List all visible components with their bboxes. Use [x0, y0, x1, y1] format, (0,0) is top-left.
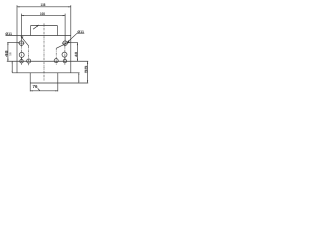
- svg-text:48: 48: [4, 49, 9, 57]
- svg-text:16: 16: [8, 52, 12, 56]
- svg-text:76: 76: [33, 84, 39, 89]
- svg-text:Ø11: Ø11: [5, 32, 12, 36]
- svg-text:55: 55: [83, 64, 88, 73]
- svg-text:48: 48: [73, 51, 78, 57]
- svg-text:138: 138: [41, 3, 46, 7]
- svg-text:Ø11: Ø11: [77, 30, 84, 34]
- svg-text:108: 108: [40, 12, 45, 16]
